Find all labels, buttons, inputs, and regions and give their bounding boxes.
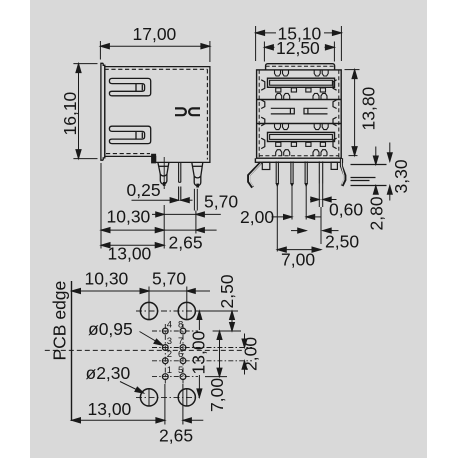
svg-text:2,00: 2,00 [240,207,274,227]
base plate [255,158,342,162]
dim 2,50 row [291,228,339,233]
svg-text:7,00: 7,00 [207,378,227,412]
dim 2,00 row [272,214,321,219]
dim 13,80 right side [345,70,360,156]
port 2 tongue [268,132,335,141]
dim 7,00 footprint [217,331,222,377]
hidden dashed line above base [259,155,339,157]
port 1 top latch bumps [275,70,329,76]
leader line for 2,30 [120,382,144,394]
mounting hole top-left [136,302,200,319]
port 1 lower bumps [276,93,327,99]
right solder tab [331,162,337,169]
pin 3 (right wide pin) [192,162,203,187]
svg-text:2,80: 2,80 [367,196,387,230]
footprint top dim row 10,30 / 5,70 [72,287,211,303]
svg-text:2,65: 2,65 [169,233,203,253]
dim 2,80 [373,147,378,195]
dim 13,00 row [101,243,164,248]
svg-text:1: 1 [167,365,172,376]
separator lines [257,99,342,101]
svg-text:0,60: 0,60 [329,200,363,220]
port 1 tongue [268,78,335,87]
front-face extension line down [100,163,102,249]
dim 17,00 extension lines [100,41,209,62]
svg-text:5,70: 5,70 [204,192,238,212]
mounting hole bottom-right [178,389,195,406]
svg-text:2: 2 [167,349,172,360]
right side ext lines [195,311,241,377]
dim 2,00 footprint [242,334,247,375]
port 1 contact windows [276,88,326,92]
dim 17,00 line [100,44,209,49]
dim 16,10 line [76,64,81,159]
dim 0,60 [310,197,337,202]
svg-text:2,50: 2,50 [217,274,237,308]
svg-text:8: 8 [178,319,183,330]
dim 3,30 [387,143,392,201]
svg-text:ø0,95: ø0,95 [88,319,133,339]
top cap [266,64,335,70]
mounting hole bottom-left [136,389,200,406]
svg-text:10,30: 10,30 [85,269,129,289]
thin middle pin [179,162,181,200]
pin extension lines [277,184,322,252]
svg-text:PCB edge: PCB edge [50,281,70,361]
bottom dim row 13,00 / 2,65 [72,384,204,425]
svg-text:7: 7 [178,336,183,347]
middle band forks [271,108,328,114]
dim 13,00 footprint vertical [197,311,202,397]
svg-text:6: 6 [178,349,183,360]
side bracket marks middle [261,100,336,126]
svg-text:0,25: 0,25 [127,180,161,200]
small pin holes grid [162,328,186,379]
pin 3 hidden pin lines below [194,189,197,234]
hidden side lines [259,70,339,158]
contact brackets in body [175,108,200,115]
port 2 lower bumps [276,150,327,156]
port 2 contact windows [276,142,326,146]
dim 12,50 [264,42,334,62]
svg-text:13,00: 13,00 [189,330,209,374]
dim 0,25 row [132,198,193,203]
side bracket marks port2 [261,138,336,148]
svg-text:12,50: 12,50 [276,38,320,58]
svg-text:ø2,30: ø2,30 [86,363,131,383]
svg-text:13,00: 13,00 [88,399,132,419]
dim 2,50 footprint [230,311,235,331]
svg-text:5,70: 5,70 [152,269,186,289]
svg-text:17,00: 17,00 [133,24,177,44]
dim 16,10 extension lines [73,64,97,159]
svg-text:3,30: 3,30 [391,159,411,193]
connector body outline [101,63,210,162]
dim 10,30 row with 2,65 continuation [101,228,217,233]
svg-text:2,65: 2,65 [159,426,193,446]
centerline dashed [45,349,242,351]
pin1 center extension [163,205,165,249]
svg-text:2,50: 2,50 [325,232,359,252]
body outline [257,70,342,158]
svg-text:7,00: 7,00 [281,250,315,270]
latch spring claw 2 [109,126,150,143]
svg-text:16,10: 16,10 [60,91,80,135]
leader line for 0,95 [140,332,163,346]
dim 5,70 row [152,212,221,217]
latch spring claw 1 [109,78,150,95]
front pins [276,161,323,186]
svg-text:10,30: 10,30 [107,207,151,227]
left leg [249,162,261,187]
svg-text:13,00: 13,00 [108,244,152,264]
dim 7,00 row [277,247,321,252]
left solder tab [262,162,270,169]
svg-text:4: 4 [167,319,172,330]
body hidden (dashed) inner lines [105,69,208,159]
svg-text:2,00: 2,00 [241,337,261,371]
pin 1 (left wide pin) [158,162,169,185]
pin 1 centerline [163,157,165,189]
mounting tab (black) on bottom edge [152,154,156,163]
port 2 top bumps [275,124,329,130]
small hole centerlines [152,324,252,384]
svg-text:5: 5 [178,365,183,376]
side bracket marks port1 [261,80,336,90]
dim 15,10 [256,26,342,61]
mounting hole top-right [178,302,195,319]
svg-text:13,80: 13,80 [359,86,379,130]
PCB edge line [71,281,73,421]
right side extension lines [351,165,387,186]
svg-text:3: 3 [167,336,172,347]
right leg [341,158,345,185]
